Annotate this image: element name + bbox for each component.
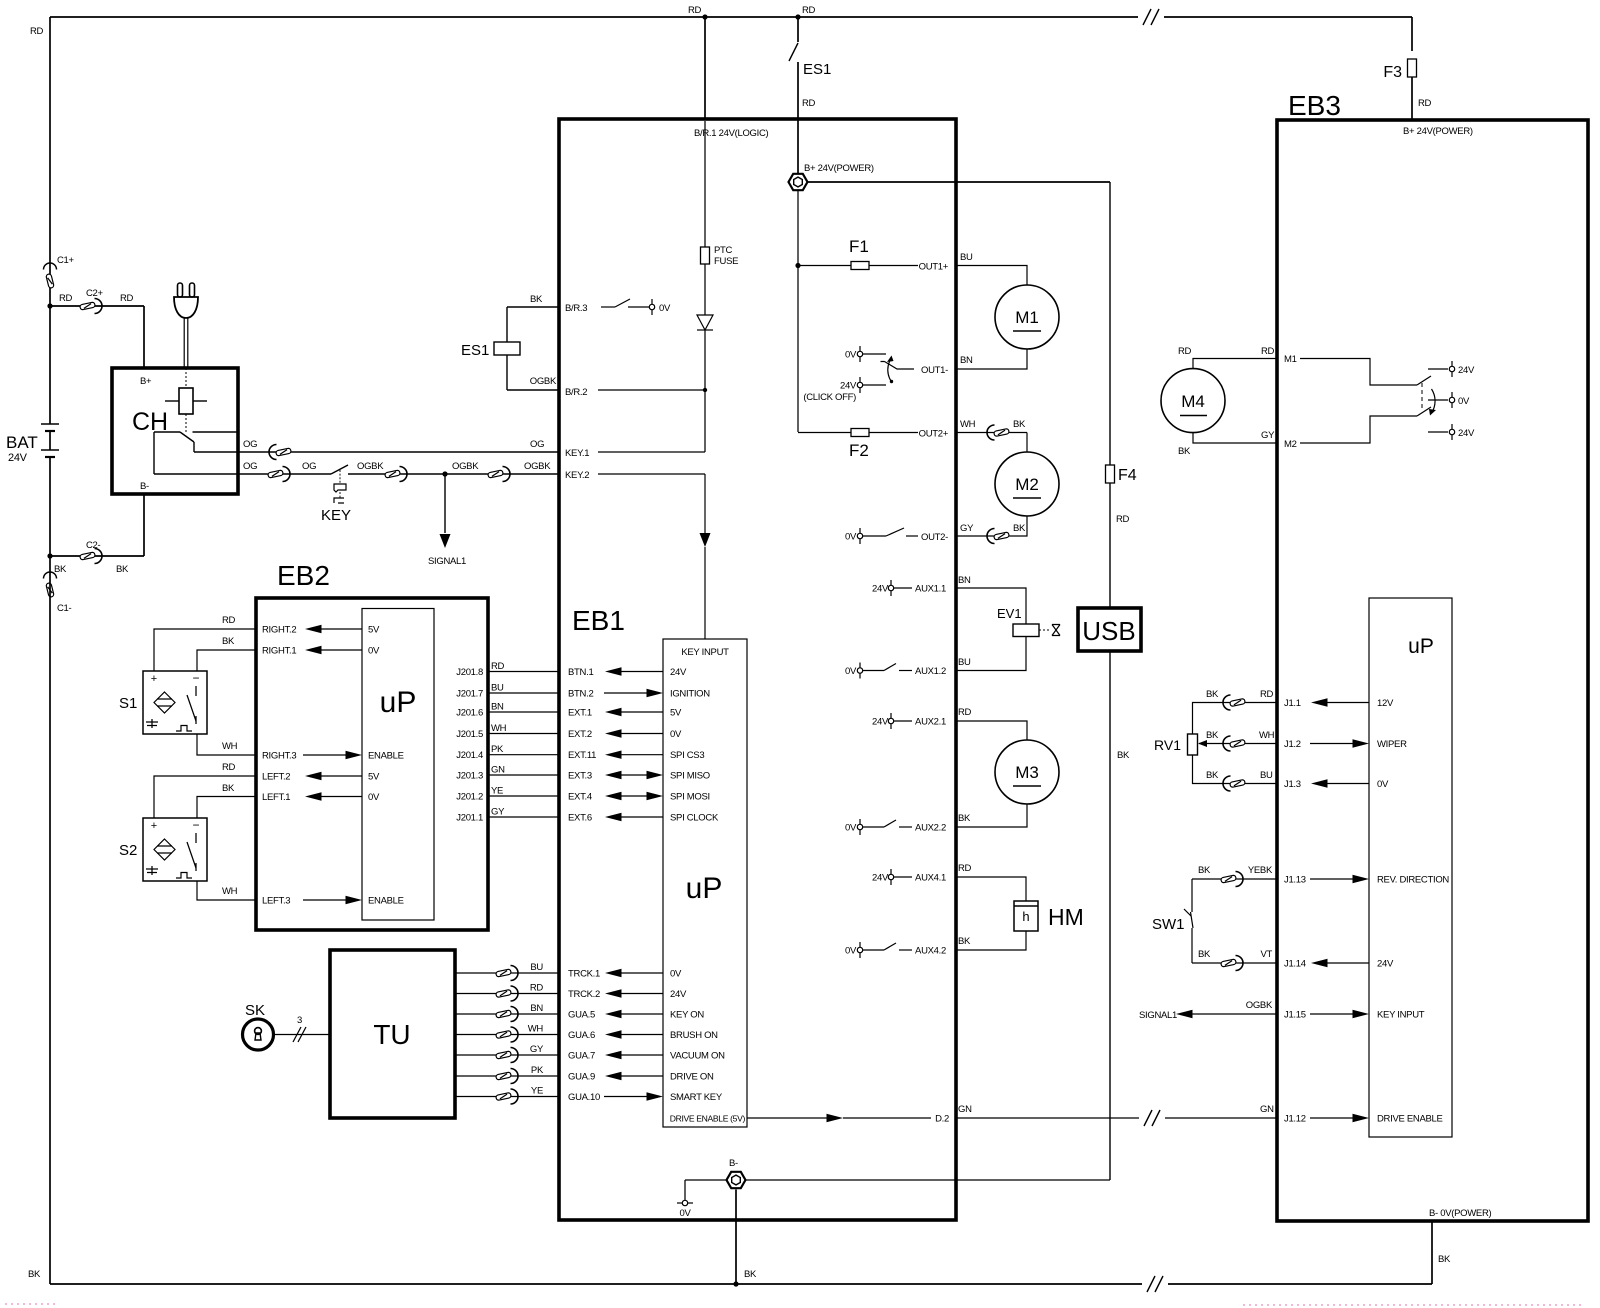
svg-text:GN: GN xyxy=(491,765,505,776)
svg-text:DRIVE ON: DRIVE ON xyxy=(670,1072,714,1083)
wire BN M1 to OUT1- xyxy=(956,349,1027,369)
svg-text:RD: RD xyxy=(688,5,702,16)
svg-text:RD: RD xyxy=(1178,346,1192,357)
svg-text:BAT: BAT xyxy=(6,433,38,452)
wire drive enable to D.2 xyxy=(747,1117,830,1119)
svg-text:VACUUM ON: VACUUM ON xyxy=(670,1051,725,1062)
svg-text:RD: RD xyxy=(222,615,236,626)
svg-text:SIGNAL1: SIGNAL1 xyxy=(428,556,466,567)
svg-text:C1+: C1+ xyxy=(57,255,75,266)
svg-text:J201.4: J201.4 xyxy=(456,750,483,761)
node junction OGBK / SIGNAL1 xyxy=(442,471,447,476)
wire BU TU to EB1 xyxy=(455,972,559,974)
svg-text:J1.13: J1.13 xyxy=(1284,875,1306,886)
node junction B- on ground bus xyxy=(733,1281,738,1286)
charger relay coil xyxy=(179,388,193,414)
fuse F2 xyxy=(851,429,869,437)
svg-text:0V: 0V xyxy=(845,532,857,543)
svg-text:uP: uP xyxy=(380,686,417,719)
svg-text:B+ 24V(POWER): B+ 24V(POWER) xyxy=(1403,126,1473,137)
svg-text:SK: SK xyxy=(245,1002,265,1019)
pin 0V of OUT1- selector xyxy=(857,351,862,356)
svg-text:C2+: C2+ xyxy=(86,288,104,299)
wire RD TU to EB1 xyxy=(455,993,559,995)
svg-text:24V: 24V xyxy=(670,989,687,1000)
connector on OGBK wire xyxy=(385,470,401,478)
svg-text:BK: BK xyxy=(222,783,235,794)
svg-text:RD: RD xyxy=(59,293,73,304)
hex stud B- inside EB1 xyxy=(685,1179,727,1181)
svg-text:BK: BK xyxy=(1178,446,1191,457)
svg-text:5V: 5V xyxy=(368,625,380,636)
pin 24V of AUX4.1 xyxy=(888,874,893,879)
svg-text:DRIVE ENABLE: DRIVE ENABLE xyxy=(1377,1114,1443,1125)
wire BK USB to B- stud xyxy=(1109,651,1111,1180)
AC cord into CH xyxy=(183,318,185,368)
wire WH S1 to RIGHT.3 xyxy=(197,734,256,755)
node RD junction at ES1 drop xyxy=(795,14,800,19)
svg-text:GUA.7: GUA.7 xyxy=(568,1051,595,1062)
svg-text:BK: BK xyxy=(1198,865,1211,876)
wire RD AUX2.1 to M3 xyxy=(956,721,1027,740)
wire YE TU to EB1 xyxy=(455,1096,559,1098)
svg-text:BU: BU xyxy=(960,252,973,263)
wire OG from CH to key switch xyxy=(238,473,331,475)
svg-text:GY: GY xyxy=(491,807,505,818)
svg-text:AUX4.1: AUX4.1 xyxy=(915,873,946,884)
svg-text:EXT.4: EXT.4 xyxy=(568,792,592,803)
svg-text:C2-: C2- xyxy=(86,540,101,551)
svg-text:EXT.2: EXT.2 xyxy=(568,729,592,740)
svg-text:F4: F4 xyxy=(1118,467,1137,484)
motor M4 xyxy=(1161,369,1225,433)
svg-text:LEFT.3: LEFT.3 xyxy=(262,896,290,907)
svg-text:AUX4.2: AUX4.2 xyxy=(915,946,946,957)
svg-text:C1-: C1- xyxy=(57,603,72,614)
wire RD M4 to M1 pin xyxy=(1193,359,1277,369)
svg-text:BK: BK xyxy=(958,813,971,824)
svg-text:GUA.10: GUA.10 xyxy=(568,1092,600,1103)
svg-text:−: − xyxy=(192,818,199,832)
wire SIGNAL1 drop xyxy=(444,474,446,533)
svg-text:3: 3 xyxy=(297,1015,302,1026)
svg-text:BK: BK xyxy=(1206,689,1219,700)
svg-text:OG: OG xyxy=(302,461,316,472)
svg-text:KEY ON: KEY ON xyxy=(670,1010,704,1021)
connector on OG key wire xyxy=(268,470,284,478)
wire OGBK from ES1 coil to B/R.2 xyxy=(506,355,508,390)
svg-text:WH: WH xyxy=(960,419,976,430)
svg-text:M3: M3 xyxy=(1015,763,1039,782)
wire OGBK SIGNAL1 to J1.15 xyxy=(1189,1013,1277,1015)
svg-text:KEY INPUT: KEY INPUT xyxy=(681,647,729,658)
wire BK/GY M4 to M2 pin xyxy=(1193,433,1277,443)
wire WH S2 to LEFT.3 xyxy=(197,881,256,900)
selector rotation arc OUT1- xyxy=(888,360,891,382)
svg-text:BK: BK xyxy=(530,294,543,305)
svg-text:BK: BK xyxy=(1198,949,1211,960)
wire BU EV1 to AUX1.2 xyxy=(956,637,1026,671)
wire OG interlock CH to EB1 KEY.1 xyxy=(238,451,559,453)
pin 0V of AUX1.2 xyxy=(857,668,862,673)
svg-text:USB: USB xyxy=(1082,616,1135,646)
svg-text:KEY INPUT: KEY INPUT xyxy=(1377,1010,1425,1021)
svg-text:S2: S2 xyxy=(119,842,137,859)
wire BK RV1 top to J1.1 xyxy=(1193,703,1278,735)
svg-text:PK: PK xyxy=(531,1065,544,1076)
svg-text:J1.2: J1.2 xyxy=(1284,739,1301,750)
svg-text:BU: BU xyxy=(491,683,504,694)
switch KEY (key switch) xyxy=(331,465,348,474)
svg-text:J201.8: J201.8 xyxy=(456,667,483,678)
pin 0V of reversing switch xyxy=(1428,399,1448,401)
pin 0V at B/R.3 xyxy=(649,304,654,309)
wire BK battery to charger B- xyxy=(50,555,144,557)
svg-text:ENABLE: ENABLE xyxy=(368,896,404,907)
USB port block xyxy=(1078,608,1141,651)
wire OGBK key to junction xyxy=(385,473,559,475)
svg-text:AUX1.1: AUX1.1 xyxy=(915,584,946,595)
svg-text:ES1: ES1 xyxy=(803,61,831,78)
svg-text:J201.5: J201.5 xyxy=(456,729,483,740)
svg-text:BK: BK xyxy=(1438,1254,1451,1265)
hour meter HM xyxy=(1014,901,1038,931)
svg-text:BN: BN xyxy=(491,702,504,713)
pin 0V of AUX2.2 xyxy=(857,824,862,829)
svg-text:OGBK: OGBK xyxy=(524,461,551,472)
svg-text:uP: uP xyxy=(686,872,723,905)
svg-text:VT: VT xyxy=(1260,949,1272,960)
svg-text:ES1: ES1 xyxy=(461,342,489,359)
svg-text:WH: WH xyxy=(491,723,507,734)
svg-text:BK: BK xyxy=(222,636,235,647)
connector C1- xyxy=(44,572,57,579)
svg-text:J1.3: J1.3 xyxy=(1284,779,1301,790)
svg-text:RD: RD xyxy=(491,661,505,672)
svg-text:EB3: EB3 xyxy=(1288,90,1341,121)
svg-text:h: h xyxy=(1022,909,1029,924)
svg-text:B+ 24V(POWER): B+ 24V(POWER) xyxy=(804,163,874,174)
svg-text:0V: 0V xyxy=(845,946,857,957)
svg-text:SPI MOSI: SPI MOSI xyxy=(670,792,710,803)
wire RD to F3 (top right) xyxy=(1411,17,1413,51)
wire RD S1 to RIGHT.2 xyxy=(154,629,256,671)
wire M1 to reversing switch xyxy=(1300,359,1417,386)
svg-text:M1: M1 xyxy=(1015,308,1039,327)
svg-text:GUA.6: GUA.6 xyxy=(568,1030,595,1041)
svg-text:RD: RD xyxy=(30,26,44,37)
svg-text:BK: BK xyxy=(958,936,971,947)
svg-text:BK: BK xyxy=(1013,419,1026,430)
svg-text:24V: 24V xyxy=(8,452,28,464)
svg-text:KEY.1: KEY.1 xyxy=(565,448,589,459)
svg-text:J201.2: J201.2 xyxy=(456,792,483,803)
selector blade OUT1- xyxy=(881,362,915,370)
svg-text:AUX2.1: AUX2.1 xyxy=(915,717,946,728)
svg-text:RIGHT.1: RIGHT.1 xyxy=(262,646,296,657)
svg-text:OG: OG xyxy=(243,461,257,472)
svg-text:GY: GY xyxy=(960,523,974,534)
svg-text:J201.1: J201.1 xyxy=(456,813,483,824)
svg-text:0V: 0V xyxy=(670,729,682,740)
svg-text:uP: uP xyxy=(1408,635,1434,658)
connector on OG interlock wire xyxy=(276,448,292,456)
svg-text:0V: 0V xyxy=(679,1208,691,1219)
switch ES1 contact (emergency stop) xyxy=(789,43,798,61)
svg-text:S1: S1 xyxy=(119,695,137,712)
svg-text:BN: BN xyxy=(960,355,973,366)
svg-text:J1.14: J1.14 xyxy=(1284,959,1306,970)
svg-text:0V: 0V xyxy=(1458,396,1470,407)
svg-text:B/R.2: B/R.2 xyxy=(565,387,587,398)
wire BU OUT1+ to M1 xyxy=(956,266,1027,286)
svg-text:0V: 0V xyxy=(1377,779,1389,790)
svg-text:RD: RD xyxy=(222,762,236,773)
wire GN D.2 to J1.12 xyxy=(956,1117,1277,1119)
wire WH TU to EB1 xyxy=(455,1034,559,1036)
connector C1+ xyxy=(44,263,57,270)
wire SK to TU (3 cores) xyxy=(274,1034,331,1036)
sensor S2 xyxy=(143,818,207,881)
fuse F4 xyxy=(1106,465,1115,483)
svg-text:GY: GY xyxy=(530,1044,544,1055)
pin 0V of OUT2- switch xyxy=(857,533,862,538)
svg-text:SPI CS3: SPI CS3 xyxy=(670,750,704,761)
svg-text:5V: 5V xyxy=(670,708,682,719)
svg-text:BK: BK xyxy=(1206,770,1219,781)
wire RD positive supply bus (top) xyxy=(50,16,1412,18)
wire RD left battery bus xyxy=(49,17,51,306)
svg-text:J201.3: J201.3 xyxy=(456,771,483,782)
switch AUX4.2 xyxy=(884,943,896,950)
connector C2+ xyxy=(80,302,96,310)
svg-text:OUT1-: OUT1- xyxy=(921,365,948,376)
svg-text:M1: M1 xyxy=(1284,354,1297,365)
wire RD AUX4.1 to HM xyxy=(956,877,1026,901)
charger block CH xyxy=(112,368,238,494)
svg-text:B- 0V(POWER): B- 0V(POWER) xyxy=(1429,1208,1492,1219)
wire BK S1 to RIGHT.1 xyxy=(197,650,256,671)
svg-text:BU: BU xyxy=(958,657,971,668)
svg-text:0V: 0V xyxy=(845,823,857,834)
wire BN AUX1.1 to EV1 xyxy=(956,588,1026,624)
svg-text:F1: F1 xyxy=(849,237,869,256)
AC plug icon xyxy=(178,283,183,297)
svg-text:F3: F3 xyxy=(1383,64,1402,81)
svg-text:TRCK.2: TRCK.2 xyxy=(568,989,600,1000)
node RD junction at B/R.1 drop xyxy=(702,14,707,19)
svg-text:0V: 0V xyxy=(659,303,671,314)
wire M2 to reversing switch xyxy=(1300,416,1417,443)
wire BK M3 to AUX2.2 xyxy=(956,804,1027,827)
wire KEY.2 to KEY INPUT arrow xyxy=(598,473,705,475)
wire B- stud to ground bus xyxy=(735,1190,737,1285)
svg-text:RD: RD xyxy=(1418,98,1432,109)
svg-text:SPI MISO: SPI MISO xyxy=(670,771,710,782)
pin 0V of AUX4.2 xyxy=(857,947,862,952)
pin 0V at B- stud xyxy=(682,1200,687,1205)
wire BN TU to EB1 xyxy=(455,1013,559,1015)
svg-text:D.2: D.2 xyxy=(935,1114,949,1125)
wire VT SW1 to J1.14 xyxy=(1192,962,1277,964)
svg-text:YE: YE xyxy=(491,786,503,797)
wire BK to ES1 coil xyxy=(507,306,559,308)
svg-text:OG: OG xyxy=(243,439,257,450)
svg-text:EV1: EV1 xyxy=(997,606,1022,621)
fuse F1 xyxy=(851,262,869,270)
svg-text:0V: 0V xyxy=(845,350,857,361)
motor M1 xyxy=(995,285,1059,349)
wire BK ground bus (bottom) xyxy=(50,1283,1432,1285)
svg-text:12V: 12V xyxy=(1377,698,1394,709)
svg-text:RD: RD xyxy=(802,5,816,16)
node junction battery negative xyxy=(47,553,52,558)
svg-text:RD: RD xyxy=(1260,689,1274,700)
svg-text:BK: BK xyxy=(54,564,67,575)
svg-text:24V: 24V xyxy=(1458,428,1475,439)
wire RD S2 to LEFT.2 xyxy=(154,776,256,818)
svg-text:AUX1.2: AUX1.2 xyxy=(915,666,946,677)
svg-text:RIGHT.2: RIGHT.2 xyxy=(262,625,296,636)
svg-text:BU: BU xyxy=(1260,770,1273,781)
sensor S1 xyxy=(143,671,207,734)
node junction battery positive xyxy=(47,303,52,308)
valve symbol EV1 xyxy=(1039,629,1051,631)
motor M2 xyxy=(995,452,1059,516)
svg-text:KEY: KEY xyxy=(321,507,351,524)
switch B/R.3 to 0V xyxy=(601,306,615,308)
reversing switch rotation arc xyxy=(1432,389,1436,413)
svg-text:SW1: SW1 xyxy=(1152,916,1185,933)
svg-text:M2: M2 xyxy=(1284,439,1297,450)
wire RD drop to EB1 B/R.1 xyxy=(704,17,706,119)
microprocessor box uP (EB3) xyxy=(1369,598,1452,1137)
svg-text:RV1: RV1 xyxy=(1154,737,1181,753)
potentiometer RV1 xyxy=(1188,734,1198,755)
svg-text:RD: RD xyxy=(120,293,134,304)
svg-text:M4: M4 xyxy=(1181,392,1205,411)
svg-text:BTN.2: BTN.2 xyxy=(568,689,593,700)
svg-text:OGBK: OGBK xyxy=(357,461,384,472)
wire BK S2 to LEFT.1 xyxy=(197,797,256,819)
svg-text:+: + xyxy=(151,673,157,685)
svg-text:LEFT.2: LEFT.2 xyxy=(262,772,290,783)
pin 24V (CLICK OFF) of OUT1- selector xyxy=(857,382,862,387)
svg-text:GY: GY xyxy=(1261,430,1275,441)
wire break bottom bus xyxy=(1142,1272,1168,1296)
pin 24V of AUX1.1 xyxy=(888,585,893,590)
wire break top bus xyxy=(1138,5,1164,29)
telemetry block TU xyxy=(330,950,455,1118)
smart key SK xyxy=(243,1019,274,1050)
svg-text:OGBK: OGBK xyxy=(1246,1000,1273,1011)
hex stud B+ 24V(POWER) xyxy=(797,119,799,173)
svg-text:24V: 24V xyxy=(1458,365,1475,376)
svg-text:RD: RD xyxy=(802,98,816,109)
switch OUT2- xyxy=(886,528,904,536)
svg-text:J1.12: J1.12 xyxy=(1284,1114,1306,1125)
svg-text:SIGNAL1: SIGNAL1 xyxy=(1139,1010,1177,1021)
wire GY TU to EB1 xyxy=(455,1054,559,1056)
svg-text:J201.7: J201.7 xyxy=(456,689,483,700)
svg-text:LEFT.1: LEFT.1 xyxy=(262,792,290,803)
svg-text:WH: WH xyxy=(1259,730,1275,741)
fuse PTC inside EB1 xyxy=(701,247,710,264)
switch AUX1.2 xyxy=(884,664,896,671)
charger relay contact xyxy=(154,431,180,433)
svg-text:OUT2+: OUT2+ xyxy=(919,429,949,440)
traction block EB3 xyxy=(1277,120,1588,1221)
svg-text:WH: WH xyxy=(528,1024,544,1035)
wire OUT1+ with fuse F1 xyxy=(798,265,918,267)
svg-text:AUX2.2: AUX2.2 xyxy=(915,823,946,834)
svg-text:BU: BU xyxy=(530,962,543,973)
svg-text:WH: WH xyxy=(222,741,238,752)
svg-text:EXT.11: EXT.11 xyxy=(568,750,596,761)
svg-text:TU: TU xyxy=(373,1019,410,1050)
wire BK EB3 to ground bus xyxy=(1431,1221,1433,1284)
svg-text:24V: 24V xyxy=(872,717,889,728)
wire PK TU to EB1 xyxy=(455,1075,559,1077)
svg-text:B+: B+ xyxy=(140,376,152,387)
wire RD battery to charger B+ xyxy=(50,305,144,307)
wire B/R.1 logic feed inside EB1 xyxy=(704,121,706,247)
svg-text:OG: OG xyxy=(530,439,544,450)
wire BK RV1 wiper to J1.2 xyxy=(1199,743,1277,745)
wire BK HM to AUX4.2 xyxy=(956,931,1026,950)
decorative pink dots bottom xyxy=(5,1303,55,1305)
svg-text:RD: RD xyxy=(958,863,972,874)
svg-text:BK: BK xyxy=(28,1269,41,1280)
svg-text:GUA.5: GUA.5 xyxy=(568,1010,595,1021)
svg-text:BK: BK xyxy=(1206,730,1219,741)
svg-text:BK: BK xyxy=(1117,750,1130,761)
svg-text:PK: PK xyxy=(491,744,504,755)
svg-text:24V: 24V xyxy=(670,667,687,678)
wire YEBK SW1 to J1.13 xyxy=(1192,878,1277,880)
svg-text:BK: BK xyxy=(1013,523,1026,534)
svg-text:24V: 24V xyxy=(872,873,889,884)
svg-text:J1.1: J1.1 xyxy=(1284,698,1301,709)
wire BK RV1 bottom to J1.3 xyxy=(1193,755,1278,784)
svg-text:B-: B- xyxy=(729,1158,738,1169)
svg-text:24V: 24V xyxy=(1377,959,1394,970)
wire BK left bus to bottom xyxy=(49,556,51,1284)
svg-text:IGNITION: IGNITION xyxy=(670,689,710,700)
svg-text:0V: 0V xyxy=(670,969,682,980)
svg-text:SMART KEY: SMART KEY xyxy=(670,1092,723,1103)
battery BAT 24V xyxy=(49,306,51,424)
svg-text:RD: RD xyxy=(530,983,544,994)
svg-text:J1.15: J1.15 xyxy=(1284,1010,1306,1021)
connector C2- xyxy=(80,552,96,560)
svg-text:WIPER: WIPER xyxy=(1377,739,1407,750)
wire B+ power feed down xyxy=(797,191,799,432)
svg-text:BTN.1: BTN.1 xyxy=(568,667,593,678)
svg-text:EB1: EB1 xyxy=(572,605,625,636)
node junction F1 tap xyxy=(795,263,800,268)
wire RD drop to ES1 xyxy=(797,17,799,42)
wire RD B+ stud to F4/USB xyxy=(807,181,1111,183)
wire OUT2+ to M2 with connector xyxy=(956,432,1027,434)
svg-text:REV. DIRECTION: REV. DIRECTION xyxy=(1377,875,1449,886)
relay coil ES1 xyxy=(494,342,520,355)
svg-text:EXT.1: EXT.1 xyxy=(568,708,592,719)
svg-text:−: − xyxy=(192,671,199,685)
microprocessor box uP (EB2) xyxy=(362,609,434,921)
svg-text:GUA.9: GUA.9 xyxy=(568,1072,595,1083)
svg-text:GN: GN xyxy=(958,1104,972,1115)
